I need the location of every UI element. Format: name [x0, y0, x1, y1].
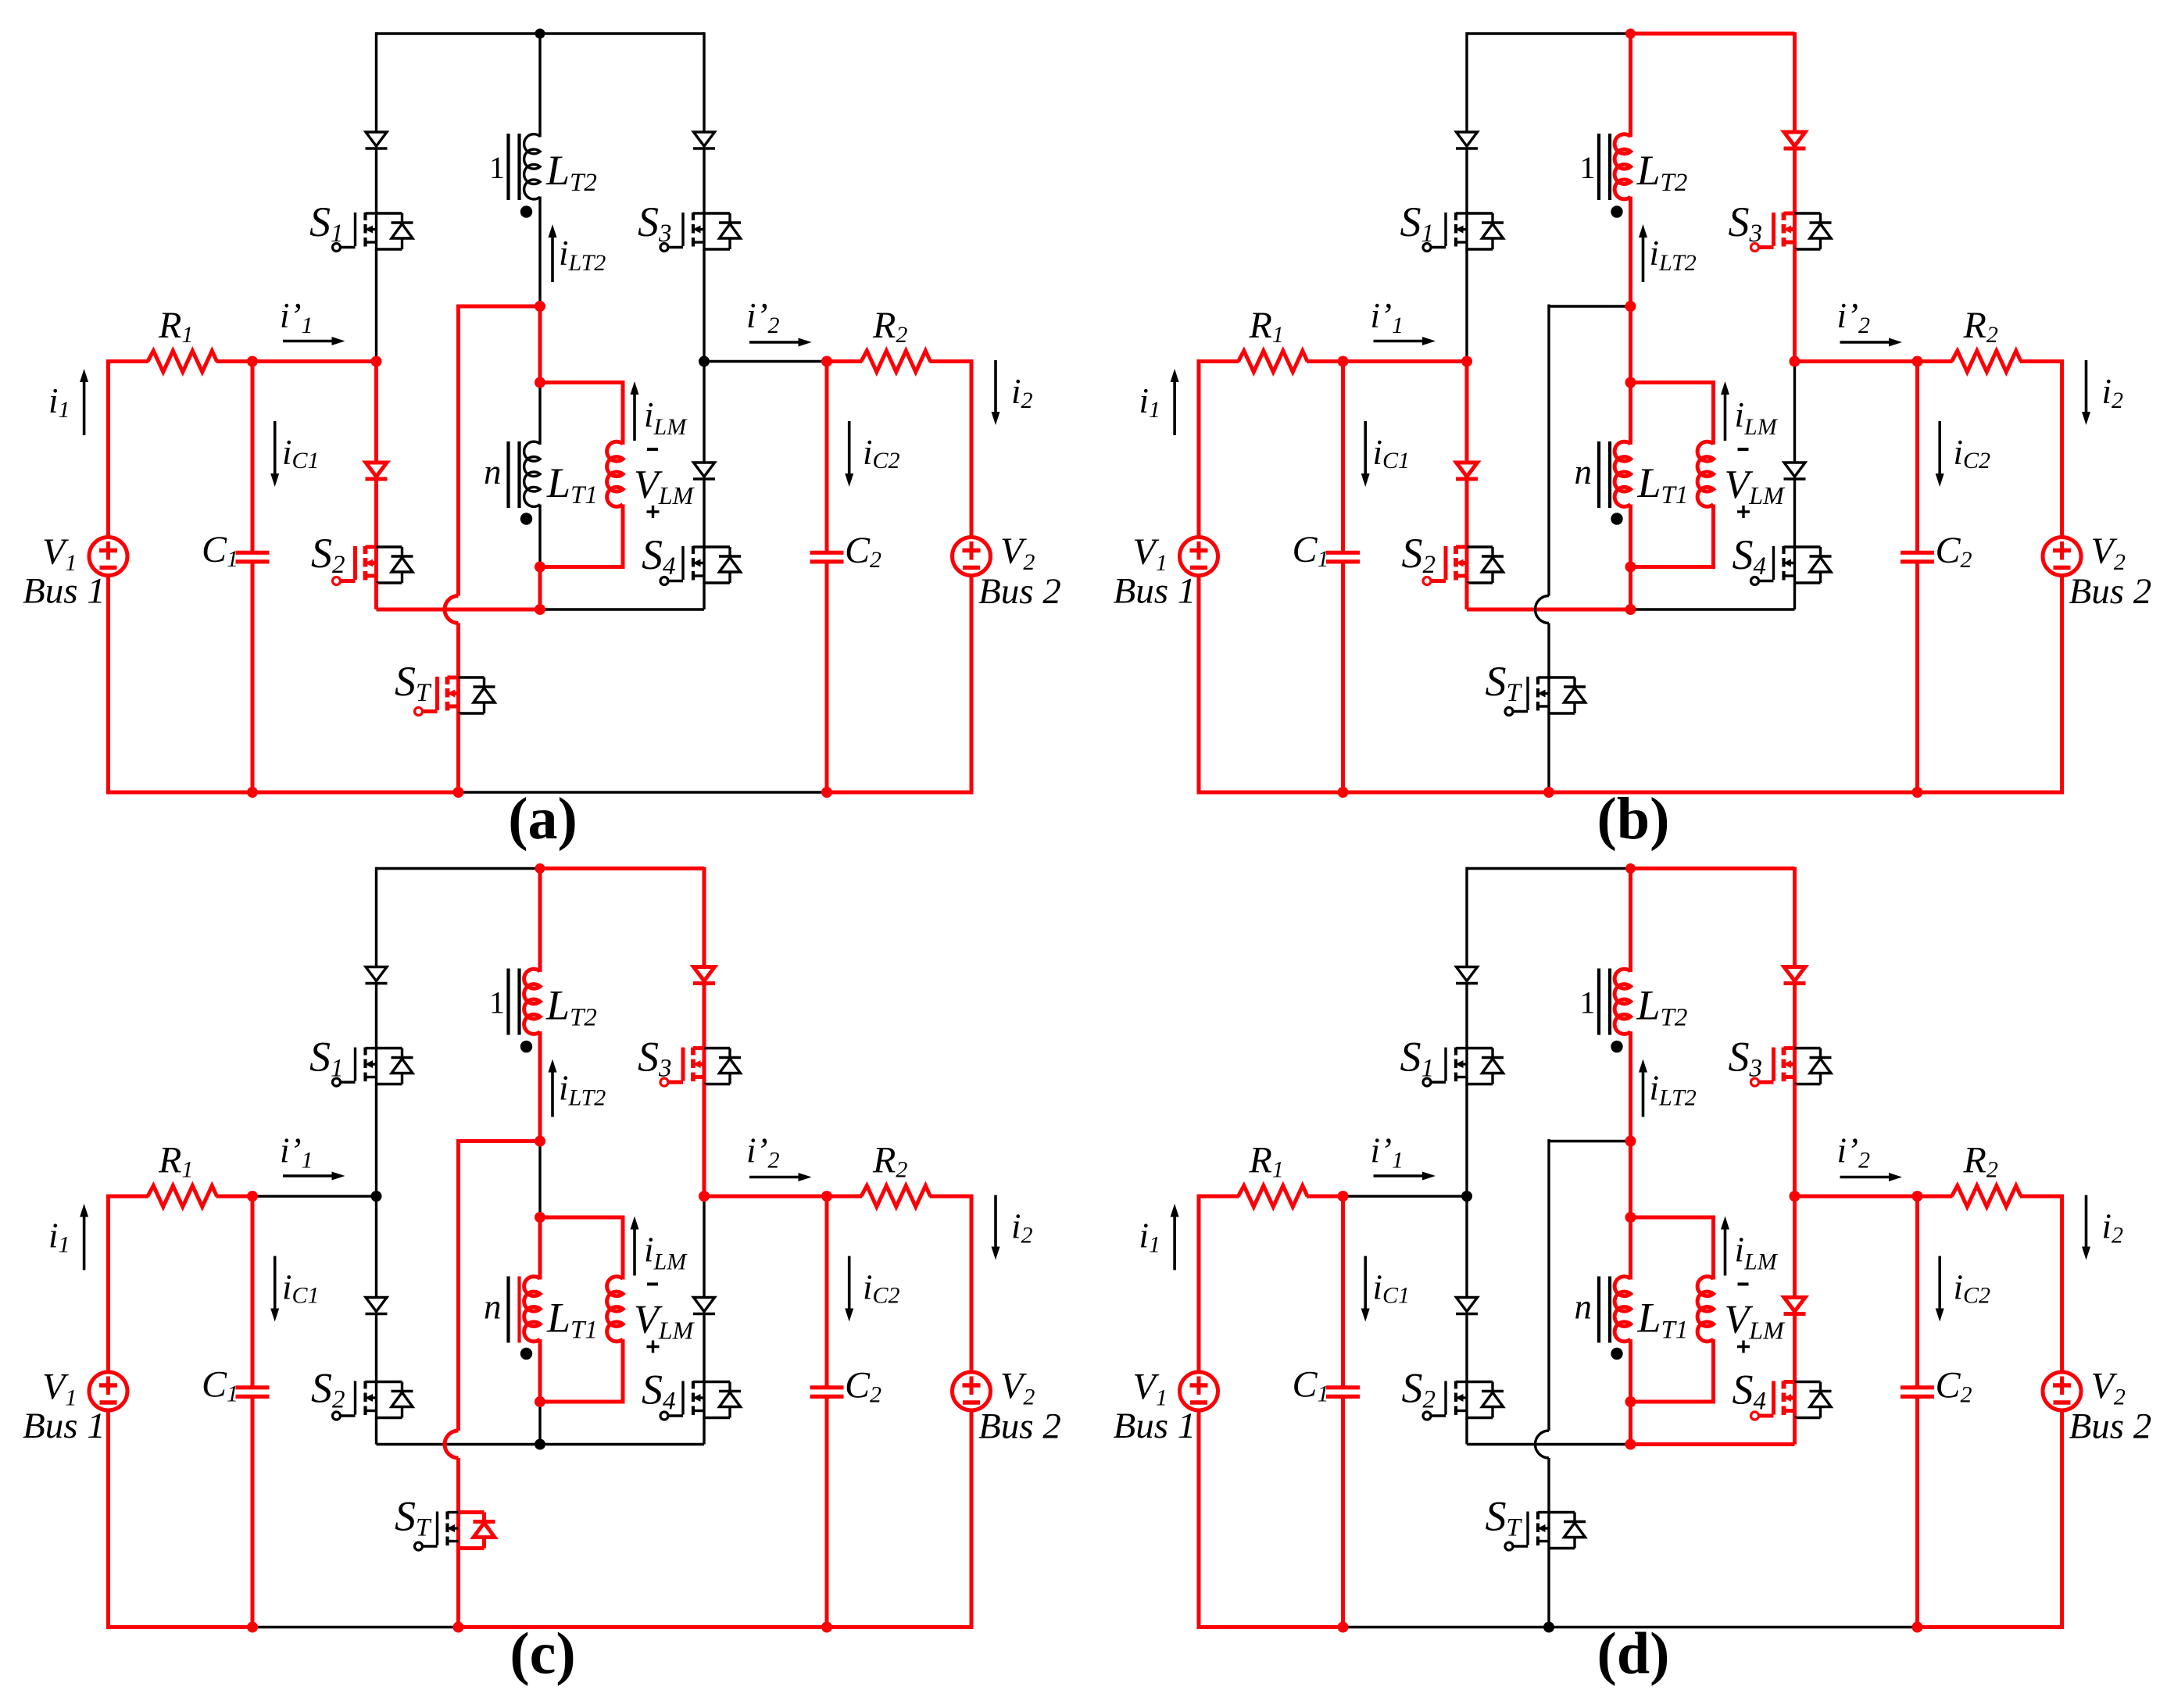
wire hook vertical upper [1547, 305, 1550, 596]
wire C2 bottom lead [1915, 1399, 1919, 1628]
node bottom rail at C2 [821, 787, 832, 798]
node M3 [1625, 562, 1636, 573]
wire bottom rail ST node to C2 [1549, 791, 1918, 795]
transformer core bars LT2 [506, 969, 510, 1035]
arrow iC2 (down) [848, 421, 851, 473]
inductor LT1 winding [524, 1277, 540, 1342]
arrow iC2 (down) [848, 1256, 851, 1309]
wire bottom bridge S2 to node B [1467, 608, 1631, 612]
label minus (VLM polarity) [647, 1283, 658, 1286]
node bottom rail at ST [1543, 1622, 1554, 1633]
wire V2 top lead [970, 1195, 974, 1373]
wire bottom rail V1 to C1 [109, 1625, 253, 1629]
node top junction [1625, 29, 1636, 39]
resistor R1 [148, 351, 217, 372]
wire S2 to bottom bridge [1465, 1418, 1468, 1445]
wire LT1 to node M3 [538, 1339, 542, 1402]
node M2 [535, 1212, 545, 1223]
wire VLM top lead [1711, 381, 1715, 445]
wire right leg upper [703, 867, 706, 967]
inductor VLM winding [1697, 1277, 1713, 1342]
diode D1 (left leg top) [1457, 132, 1478, 146]
wire V2 bottom lead [2060, 1410, 2064, 1629]
capacitor C1 [236, 551, 270, 555]
arrow i'2 (right) [749, 1176, 799, 1179]
voltage source V2 (Bus 2) [2043, 538, 2081, 576]
wire D4 to S4 [703, 478, 705, 547]
inductor VLM winding [607, 1277, 623, 1342]
label minus (VLM polarity) [647, 448, 658, 451]
wire V2 bottom lead [970, 576, 974, 795]
wire R1 to node C1-top [1307, 359, 1343, 363]
wire V1 bottom lead [106, 576, 110, 795]
wire node M1 to hook corner [459, 1139, 541, 1143]
node right leg mid [1790, 1191, 1800, 1202]
node left leg mid [371, 1191, 382, 1202]
node bottom rail at C1 [1338, 787, 1349, 798]
label minus (VLM polarity) [1738, 448, 1749, 451]
transistor ST (MOSFET with body diode) [456, 1511, 460, 1550]
wire C2 bottom lead [1915, 563, 1919, 792]
transistor S1 (MOSFET with body diode) [1465, 212, 1468, 251]
wire C2 top lead [825, 1196, 829, 1386]
transformer core bars LT2 [506, 134, 510, 200]
svg-text:1: 1 [1580, 150, 1596, 185]
wire node M1 to hook corner [1549, 305, 1631, 307]
diode D3 (right leg top) [694, 967, 715, 981]
wire S4 to bottom bridge [1793, 583, 1796, 609]
arrow iLM (up) [633, 1230, 636, 1276]
wire bottom rail C1 to ST node [1343, 791, 1550, 795]
wire C2 node to R2 [827, 1195, 862, 1199]
wire bottom bridge S2 to node B [377, 608, 541, 612]
wire R2 to V2 corner [2020, 1195, 2062, 1199]
wire bottom rail C2 to V2 [827, 1625, 971, 1629]
resistor R2 [861, 1186, 931, 1207]
transformer core bars LT2 [1597, 969, 1600, 1035]
wire C1 top lead [251, 1196, 255, 1386]
transistor S1 (MOSFET with body diode) [375, 212, 377, 251]
voltage source V1 (Bus 1) [1180, 1372, 1218, 1410]
wire S1 to left mid node [1465, 249, 1468, 362]
svg-text:(c): (c) [510, 1621, 575, 1687]
wire D1 to S1 [1465, 983, 1468, 1049]
resistor R2 [1952, 1186, 2022, 1207]
capacitor C1 [1326, 551, 1360, 555]
wire bottom rail C1 to ST node [1343, 1626, 1550, 1628]
wire C1 bottom lead [251, 1399, 255, 1628]
inductor LT2 winding [524, 134, 540, 199]
wire D2 to S2 [1465, 1313, 1468, 1382]
wire V1 to R1 [1197, 359, 1239, 363]
inductor LT1 winding [524, 441, 540, 506]
node right leg mid [699, 356, 710, 367]
wire LT2 to node M1 [1629, 197, 1632, 307]
wire hook vertical upper [1547, 1139, 1550, 1431]
node M2 [535, 377, 545, 388]
arrow i1 (up) [1173, 382, 1176, 435]
node bottom rail at ST [1543, 787, 1554, 798]
svg-text:n: n [1575, 1288, 1593, 1327]
wire V2 top lead [970, 359, 974, 538]
phase dot LT1 [520, 1348, 532, 1360]
wire S4 to bottom bridge [1793, 1418, 1797, 1445]
node B [535, 1439, 545, 1450]
transistor S2 (MOSFET with body diode) [1465, 1381, 1468, 1420]
wire right mid node to C2 [704, 1195, 827, 1199]
wire S3 to right mid node [703, 1084, 706, 1197]
resistor R1 [1239, 351, 1308, 372]
svg-text:Bus 2: Bus 2 [978, 1406, 1061, 1447]
svg-text:n: n [484, 452, 502, 491]
node C2 top [1912, 1191, 1923, 1202]
wire bottom rail C1 to ST node [252, 1626, 459, 1628]
wire V1 to R1 [106, 1195, 148, 1199]
subfigure (a) [23, 29, 1061, 852]
phase dot LT2 [520, 1041, 532, 1052]
svg-text:(b): (b) [1597, 786, 1670, 852]
wire S2 to bottom bridge [374, 583, 378, 609]
phase dot LT1 [1611, 513, 1622, 524]
node bottom rail at C1 [247, 787, 258, 798]
wire VLM loop bottom [1631, 1400, 1716, 1404]
subfigure (c) [23, 863, 1061, 1687]
capacitor C2 [1901, 1385, 1934, 1389]
wire top junction to LT2 [538, 867, 542, 972]
wire VLM bottom lead [621, 1339, 625, 1402]
wire hook vertical lower [1547, 624, 1550, 678]
wire node M3 to node B [1629, 1402, 1632, 1445]
wire R1 to node C1-top [216, 359, 253, 363]
capacitor C2 [810, 1385, 844, 1389]
arrow iC1 (down) [1364, 1256, 1367, 1309]
wire C1 bottom lead [1341, 1399, 1345, 1628]
wire node M2 to LT1 [538, 1217, 542, 1280]
wire V2 bottom lead [2060, 576, 2064, 795]
diode D3 (right leg top) [1784, 132, 1805, 146]
svg-text:n: n [1575, 452, 1593, 491]
wire node M1 to node M2 [1629, 1142, 1632, 1218]
wire VLM loop bottom [540, 565, 625, 569]
arrow i'1 (right) [1374, 1174, 1423, 1177]
inductor LT1 winding [1615, 441, 1630, 506]
wire node M3 to node B [1629, 567, 1632, 610]
capacitor C2 [1901, 551, 1934, 555]
wire S1 to left mid node [375, 249, 377, 362]
transistor S3 (MOSFET with body diode) [1793, 1047, 1797, 1086]
wire S3 to right mid node [1793, 1084, 1797, 1197]
node C2 top [1912, 356, 1923, 367]
resistor R2 [861, 351, 931, 372]
wire D1 to S1 [375, 983, 377, 1049]
wire left leg upper [1465, 867, 1468, 967]
subfigure (b) [1114, 29, 2152, 852]
diode D4 (right leg lower) [694, 1298, 715, 1312]
node right leg mid [1790, 356, 1800, 367]
wire hop over bottom bridge [445, 596, 459, 624]
transistor ST (MOSFET with body diode) [1547, 1511, 1550, 1550]
wire D2 to S2 [375, 1313, 377, 1382]
wire VLM loop top [1631, 381, 1714, 384]
transformer core bars LT2 [1597, 134, 1600, 200]
wire D2 to S2 [1465, 478, 1469, 547]
label plus (VLM polarity) [1737, 1345, 1750, 1348]
arrow i1 (up) [83, 1217, 86, 1270]
arrow iC1 (down) [274, 1256, 277, 1309]
arrow i'1 (right) [1374, 340, 1423, 343]
node bottom rail at C2 [1912, 787, 1923, 798]
wire R2 to V2 corner [930, 359, 972, 363]
arrow iLT2 (up) [1642, 1073, 1645, 1117]
wire bottom rail ST node to C2 [1549, 1626, 1918, 1628]
transformer core bars LT1 [506, 1277, 510, 1343]
transistor S4 (MOSFET with body diode) [1793, 545, 1796, 584]
wire right mid node to D4 [703, 362, 705, 463]
arrow i'2 (right) [749, 341, 799, 344]
wire ST to bottom rail [456, 1549, 460, 1628]
inductor LT2 winding [1615, 969, 1630, 1034]
arrow iLM (up) [1724, 1230, 1727, 1276]
arrow i'1 (right) [283, 340, 332, 343]
wire left mid node to D2 [375, 1196, 377, 1298]
wire D2 to S2 [374, 478, 378, 547]
node M2 [1625, 377, 1636, 388]
node M1 [1625, 1136, 1636, 1147]
wire V1 to R1 [1197, 1195, 1239, 1199]
node bottom rail at ST [453, 787, 464, 798]
wire bottom rail V1 to C1 [1199, 1625, 1343, 1629]
wire C2 top lead [825, 362, 829, 552]
transformer core bars LT1 [1597, 441, 1600, 508]
wire C1 top lead [251, 362, 255, 552]
arrow i2 (down) [994, 1195, 997, 1247]
wire V1 bottom lead [1197, 576, 1201, 795]
wire bottom rail V1 to C1 [109, 791, 253, 795]
capacitor C1 [236, 1385, 270, 1389]
wire VLM loop top [540, 381, 623, 384]
capacitor C1 [1326, 1385, 1360, 1389]
transistor S4 (MOSFET with body diode) [703, 545, 705, 584]
arrow iLT2 (up) [551, 1073, 554, 1117]
diode D2 (left leg lower) [366, 463, 387, 477]
diode D4 (right leg lower) [1784, 1298, 1805, 1312]
inductor VLM winding [1697, 441, 1713, 506]
node bottom rail at C2 [1912, 1622, 1923, 1633]
wire C2 top lead [1915, 1196, 1919, 1386]
wire V1 top lead [1197, 359, 1201, 538]
wire C2 node to R2 [827, 359, 862, 363]
wire D4 to S4 [1793, 478, 1796, 547]
diode D2 (left leg lower) [1457, 463, 1478, 477]
wire hook vertical lower [456, 1458, 460, 1513]
node B [535, 604, 545, 615]
wire node-C1 to left leg [252, 359, 377, 363]
arrow iC2 (down) [1938, 1256, 1941, 1309]
wire VLM loop bottom [540, 1400, 625, 1404]
node left leg mid [1461, 356, 1472, 367]
wire D3 to S3 [703, 983, 706, 1049]
diode D3 (right leg top) [1784, 967, 1805, 981]
wire right leg upper [1793, 32, 1797, 132]
wire right leg upper [1793, 867, 1797, 967]
arrow i'2 (right) [1840, 1176, 1890, 1179]
wire node-C1 to left leg [1343, 359, 1468, 363]
wire ST to bottom rail [1547, 1549, 1550, 1628]
node C1 top [247, 1191, 258, 1202]
wire C2 node to R2 [1918, 359, 1953, 363]
wire C1 top lead [1341, 1196, 1345, 1386]
svg-text:Bus 2: Bus 2 [2069, 1406, 2152, 1447]
wire right mid node to D4 [1793, 1196, 1797, 1298]
wire C2 top lead [1915, 362, 1919, 552]
wire D3 to S3 [1793, 148, 1797, 213]
node M3 [535, 562, 545, 573]
wire hop over bottom bridge [1536, 596, 1550, 624]
node top junction [535, 863, 545, 874]
diode D4 (right leg lower) [1784, 463, 1805, 477]
arrow iC1 (down) [274, 421, 277, 473]
wire ST to bottom rail [456, 713, 460, 792]
diode D3 (right leg top) [694, 132, 715, 146]
wire hop over bottom bridge [1536, 1431, 1550, 1458]
wire right mid node to C2 [1795, 1195, 1918, 1199]
node C1 top [1338, 1191, 1349, 1202]
wire bottom bridge S2 to node B [1467, 1443, 1631, 1445]
node top junction [535, 29, 545, 39]
transistor S1 (MOSFET with body diode) [375, 1047, 377, 1086]
wire S3 to right mid node [703, 249, 705, 362]
wire D3 to S3 [703, 148, 705, 213]
diode D4 (right leg lower) [694, 463, 715, 477]
wire VLM loop bottom [1631, 565, 1716, 569]
wire node M1 to node M2 [538, 306, 542, 383]
resistor R2 [1952, 351, 2022, 372]
label plus (VLM polarity) [1737, 510, 1750, 513]
node B [1625, 1439, 1636, 1450]
arrow iC1 (down) [1364, 421, 1367, 473]
wire VLM top lead [1711, 1216, 1715, 1280]
wire bottom rail C2 to V2 [1918, 791, 2062, 795]
node top junction [1625, 863, 1636, 874]
wire node M1 to node M2 [538, 1142, 541, 1218]
svg-text:n: n [484, 1288, 502, 1327]
transistor S3 (MOSFET with body diode) [703, 1047, 706, 1086]
node M2 [1625, 1212, 1636, 1223]
phase dot LT1 [520, 513, 532, 524]
transistor S2 (MOSFET with body diode) [1465, 545, 1469, 584]
node right leg mid [699, 1191, 710, 1202]
arrow i'1 (right) [283, 1174, 332, 1177]
node bottom rail at C1 [247, 1622, 258, 1633]
wire node M1 to node M2 [1629, 306, 1632, 383]
wire V1 top lead [106, 1195, 110, 1373]
wire S4 to bottom bridge [703, 1418, 705, 1445]
arrow i1 (up) [1173, 1217, 1176, 1270]
node M3 [535, 1396, 545, 1407]
wire node M3 to node B [538, 567, 542, 610]
wire D1 to S1 [375, 148, 377, 213]
svg-text:Bus 2: Bus 2 [2069, 571, 2152, 612]
wire D1 to S1 [1465, 148, 1468, 213]
arrow i2 (down) [994, 360, 997, 412]
phase dot LT2 [1611, 1041, 1622, 1052]
label minus (VLM polarity) [1738, 1283, 1749, 1286]
phase dot LT2 [520, 205, 532, 217]
wire V2 top lead [2060, 1195, 2064, 1373]
node M1 [535, 301, 545, 312]
wire VLM bottom lead [1711, 505, 1715, 567]
wire bottom bridge S2 to node B [377, 1443, 541, 1445]
wire VLM top lead [621, 1216, 625, 1280]
transformer core bars LT1 [1597, 1277, 1600, 1343]
svg-text:1: 1 [1580, 985, 1596, 1020]
wire V1 bottom lead [1197, 1410, 1201, 1629]
phase dot LT1 [1611, 1348, 1622, 1360]
wire node-C1 to left leg [1343, 1195, 1468, 1197]
wire bottom bridge node B to S4 [540, 608, 704, 610]
node left leg mid [1461, 1191, 1472, 1202]
transistor S2 (MOSFET with body diode) [375, 1381, 377, 1420]
wire S2 to bottom bridge [375, 1418, 377, 1445]
wire hook vertical upper [456, 305, 460, 596]
transistor S4 (MOSFET with body diode) [703, 1381, 705, 1420]
wire left leg upper [1465, 32, 1468, 132]
wire left mid node to D2 [1465, 1196, 1468, 1298]
transistor S4 (MOSFET with body diode) [1793, 1381, 1797, 1420]
wire VLM top lead [621, 381, 625, 445]
node C2 top [821, 356, 832, 367]
wire V1 top lead [106, 359, 110, 538]
wire top rail right [1631, 32, 1795, 36]
wire left mid node to D2 [1465, 362, 1469, 463]
wire D4 to S4 [703, 1313, 705, 1382]
transformer core bars LT1 [506, 441, 510, 508]
transistor ST (MOSFET with body diode) [1547, 676, 1550, 715]
arrow i'2 (right) [1840, 341, 1890, 344]
wire LT1 to node M3 [538, 505, 541, 567]
wire bottom rail C2 to V2 [1918, 1625, 2062, 1629]
transistor S3 (MOSFET with body diode) [703, 212, 705, 251]
arrow iLT2 (up) [1642, 238, 1645, 282]
wire right mid node to D4 [703, 1196, 705, 1298]
wire R2 to V2 corner [930, 1195, 972, 1199]
arrow iLM (up) [1724, 395, 1727, 441]
node C1 top [1338, 356, 1349, 367]
voltage source V1 (Bus 1) [1180, 538, 1218, 576]
wire top rail left [1467, 867, 1631, 870]
wire bottom rail C2 to V2 [827, 791, 971, 795]
wire VLM loop top [1631, 1216, 1714, 1220]
wire top rail right [540, 867, 704, 870]
svg-text:Bus 2: Bus 2 [978, 571, 1061, 612]
wire bottom rail ST node to C2 [459, 791, 828, 793]
wire LT2 to node M1 [538, 1031, 542, 1142]
wire top rail right [540, 32, 704, 34]
wire hook vertical upper [456, 1139, 460, 1431]
diode D1 (left leg top) [1457, 967, 1478, 981]
voltage source V2 (Bus 2) [953, 1372, 991, 1410]
phase dot LT2 [1611, 205, 1622, 217]
resistor R1 [148, 1186, 217, 1207]
wire left leg upper [375, 867, 377, 967]
wire left mid node to D2 [374, 362, 378, 463]
wire VLM bottom lead [621, 505, 625, 567]
wire top junction to LT2 [538, 32, 541, 137]
wire left leg upper [375, 32, 377, 132]
diode D1 (left leg top) [366, 967, 387, 981]
node bottom rail at C1 [1338, 1622, 1349, 1633]
wire top rail left [377, 32, 541, 34]
